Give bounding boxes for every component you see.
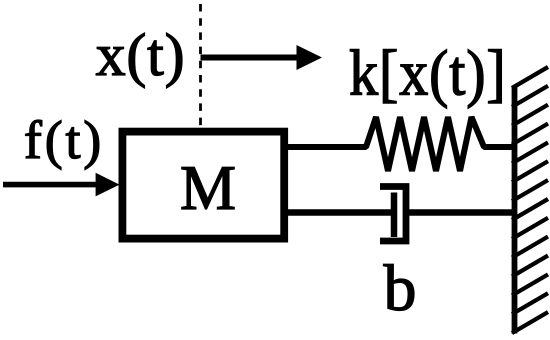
svg-text:x(t): x(t): [96, 22, 186, 88]
svg-text:f(t): f(t): [24, 110, 104, 170]
svg-text:M: M: [180, 153, 236, 223]
svg-text:b: b: [384, 252, 417, 325]
svg-text:k[x(t)]: k[x(t)]: [349, 38, 506, 109]
